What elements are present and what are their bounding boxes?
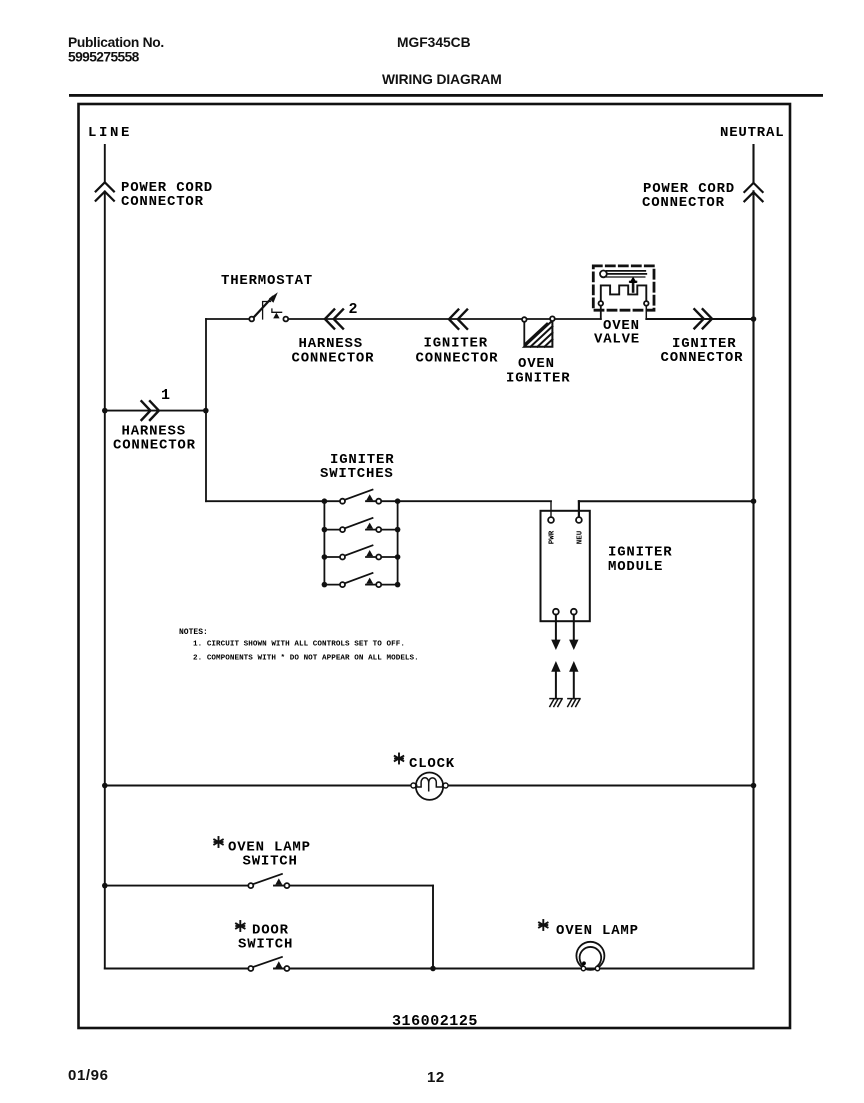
oven igniter hatched triangle bbox=[524, 321, 552, 347]
oven igniter left terminal stub bbox=[523, 321, 525, 347]
svg-text:IGNITER: IGNITER bbox=[506, 371, 570, 387]
oven valve terminal circles bbox=[599, 301, 604, 306]
wire: switch left bus bbox=[323, 501, 325, 584]
svg-text:NEU: NEU bbox=[576, 530, 584, 544]
spark electrode left arrow bbox=[551, 661, 560, 672]
wire: clock row left bbox=[105, 785, 417, 787]
clock motor m winding bbox=[416, 778, 443, 791]
svg-text:5995275558: 5995275558 bbox=[68, 50, 140, 65]
junction: main row to neutral bbox=[751, 316, 757, 322]
oven lamp switch bbox=[248, 874, 289, 888]
svg-text:VALVE: VALVE bbox=[594, 332, 640, 348]
igniter module top pin circles bbox=[548, 517, 554, 523]
svg-text:MODULE: MODULE bbox=[608, 559, 663, 575]
module output wire right with arrow bbox=[573, 615, 575, 640]
svg-text:CONNECTOR: CONNECTOR bbox=[416, 351, 499, 367]
svg-text:CONNECTOR: CONNECTOR bbox=[661, 350, 744, 366]
wire: switch row 1 left bbox=[206, 500, 343, 502]
power cord connector (line side) bbox=[96, 182, 114, 200]
harness connector 2 chevrons bbox=[325, 309, 343, 328]
junction dot lamp switch row bbox=[102, 883, 108, 889]
module output wire left with arrow bbox=[555, 615, 557, 640]
oven lamp loop junction dot bbox=[582, 961, 586, 965]
wire: vertical from thermostat corner to switches row bbox=[205, 319, 207, 501]
svg-text:01/96: 01/96 bbox=[68, 1067, 109, 1084]
igniter module bottom pin circles bbox=[553, 609, 559, 615]
svg-text:SWITCH: SWITCH bbox=[238, 937, 293, 953]
wire: lamp switch drop bbox=[432, 886, 434, 969]
wire: main igniter row mid segment bbox=[288, 318, 601, 320]
thermostat left bend bbox=[263, 302, 271, 320]
wire: oven lamp switch row right bbox=[274, 885, 433, 887]
svg-text:CONNECTOR: CONNECTOR bbox=[642, 195, 725, 211]
thermostat moving contact triangle bbox=[273, 313, 279, 319]
wire: clock row right bbox=[443, 785, 754, 787]
svg-text:1: 1 bbox=[161, 387, 170, 404]
igniter switch 2 bbox=[324, 518, 397, 532]
svg-text:OVEN LAMP: OVEN LAMP bbox=[556, 923, 639, 939]
svg-text:WIRING DIAGRAM: WIRING DIAGRAM bbox=[382, 72, 502, 87]
spark electrode right arrow bbox=[569, 661, 578, 672]
svg-text:THERMOSTAT: THERMOSTAT bbox=[221, 273, 313, 289]
svg-text:LINE: LINE bbox=[88, 125, 132, 141]
thermostat contact circles bbox=[249, 317, 254, 322]
oven igniter terminal circles bbox=[522, 317, 527, 322]
header rule bbox=[69, 94, 823, 97]
svg-text:PWR: PWR bbox=[549, 530, 557, 544]
igniter switch 3 bbox=[324, 545, 397, 559]
svg-text:NEUTRAL: NEUTRAL bbox=[720, 125, 784, 141]
svg-text:MGF345CB: MGF345CB bbox=[397, 35, 471, 50]
igniter module NEU pin stub bbox=[578, 501, 580, 517]
svg-text:1. CIRCUIT SHOWN WITH ALL CONT: 1. CIRCUIT SHOWN WITH ALL CONTROLS SET T… bbox=[193, 641, 405, 649]
wire: door switch row right bbox=[274, 968, 754, 970]
power cord connector (neutral side) bbox=[744, 183, 762, 201]
thermostat right bend bbox=[272, 309, 282, 312]
svg-text:SWITCHES: SWITCHES bbox=[320, 466, 394, 482]
oven valve terminal stubs bbox=[600, 306, 602, 319]
thermostat blade with arrow bbox=[254, 297, 273, 318]
junction dot door row bbox=[430, 966, 436, 972]
wire: LINE vertical bus bbox=[104, 145, 106, 969]
igniter module PWR pin stub bbox=[550, 501, 552, 517]
wire: main igniter row left segment bbox=[206, 318, 249, 320]
ground (chassis) left bbox=[550, 699, 562, 707]
wire: module NEU to neutral bus bbox=[579, 500, 754, 502]
oven lamp terminal circles bbox=[581, 966, 585, 970]
svg-text:NOTES:: NOTES: bbox=[179, 628, 208, 637]
igniter switch 4 bbox=[324, 573, 397, 587]
wire: main igniter row right segment bbox=[646, 318, 753, 320]
oven lamp filament loop bbox=[580, 947, 602, 966]
harness connector 1 chevrons bbox=[142, 401, 159, 420]
svg-text:316002125: 316002125 bbox=[392, 1013, 478, 1030]
oven valve coil circle bbox=[600, 271, 607, 278]
door switch bbox=[248, 957, 289, 971]
junction dots switch buses bbox=[322, 498, 401, 587]
asterisk for clock bbox=[395, 754, 404, 764]
svg-text:2: 2 bbox=[349, 301, 358, 318]
igniter connector chevrons (right) bbox=[694, 309, 712, 328]
svg-text:IGNITER: IGNITER bbox=[424, 336, 488, 352]
clock terminal circles bbox=[411, 783, 416, 788]
wire: NEUTRAL vertical bus bbox=[752, 145, 754, 969]
clock motor M1 bbox=[416, 773, 443, 800]
asterisk for oven lamp switch bbox=[214, 837, 223, 847]
svg-text:CONNECTOR: CONNECTOR bbox=[113, 438, 196, 454]
svg-text:CONNECTOR: CONNECTOR bbox=[292, 351, 375, 367]
igniter module box U1 bbox=[541, 511, 590, 621]
junction: module row to neutral bbox=[751, 498, 757, 504]
oven valve meander element bbox=[601, 285, 647, 301]
junction dots harness row bbox=[102, 408, 108, 414]
oven valve dashed enclosure bbox=[593, 266, 654, 310]
wire: switch row 1 right to module bbox=[366, 500, 551, 502]
junction dots clock row bbox=[102, 783, 108, 789]
oven valve coil lines bbox=[607, 271, 647, 277]
svg-text:Publication No.: Publication No. bbox=[68, 35, 164, 50]
svg-text:12: 12 bbox=[427, 1069, 445, 1086]
wire: oven lamp switch row left bbox=[105, 885, 251, 887]
svg-text:SWITCH: SWITCH bbox=[243, 854, 298, 870]
diagram border frame bbox=[79, 104, 791, 1028]
igniter connector chevrons (mid) bbox=[449, 310, 467, 329]
oven valve actuator arrow bbox=[632, 280, 635, 292]
wire: harness row bbox=[105, 410, 206, 412]
svg-text:CONNECTOR: CONNECTOR bbox=[121, 194, 204, 210]
wire: door switch row left bbox=[105, 968, 251, 970]
ground (chassis) right bbox=[568, 699, 580, 707]
asterisk for oven lamp bbox=[539, 920, 548, 930]
svg-text:2. COMPONENTS WITH * DO NOT AP: 2. COMPONENTS WITH * DO NOT APPEAR ON AL… bbox=[193, 655, 419, 663]
igniter switch 1 bbox=[340, 490, 381, 504]
svg-text:CLOCK: CLOCK bbox=[409, 756, 455, 772]
wire: switch right bus bbox=[397, 501, 399, 584]
oven lamp bulb circle bbox=[576, 942, 604, 970]
asterisk for door switch bbox=[236, 921, 245, 931]
